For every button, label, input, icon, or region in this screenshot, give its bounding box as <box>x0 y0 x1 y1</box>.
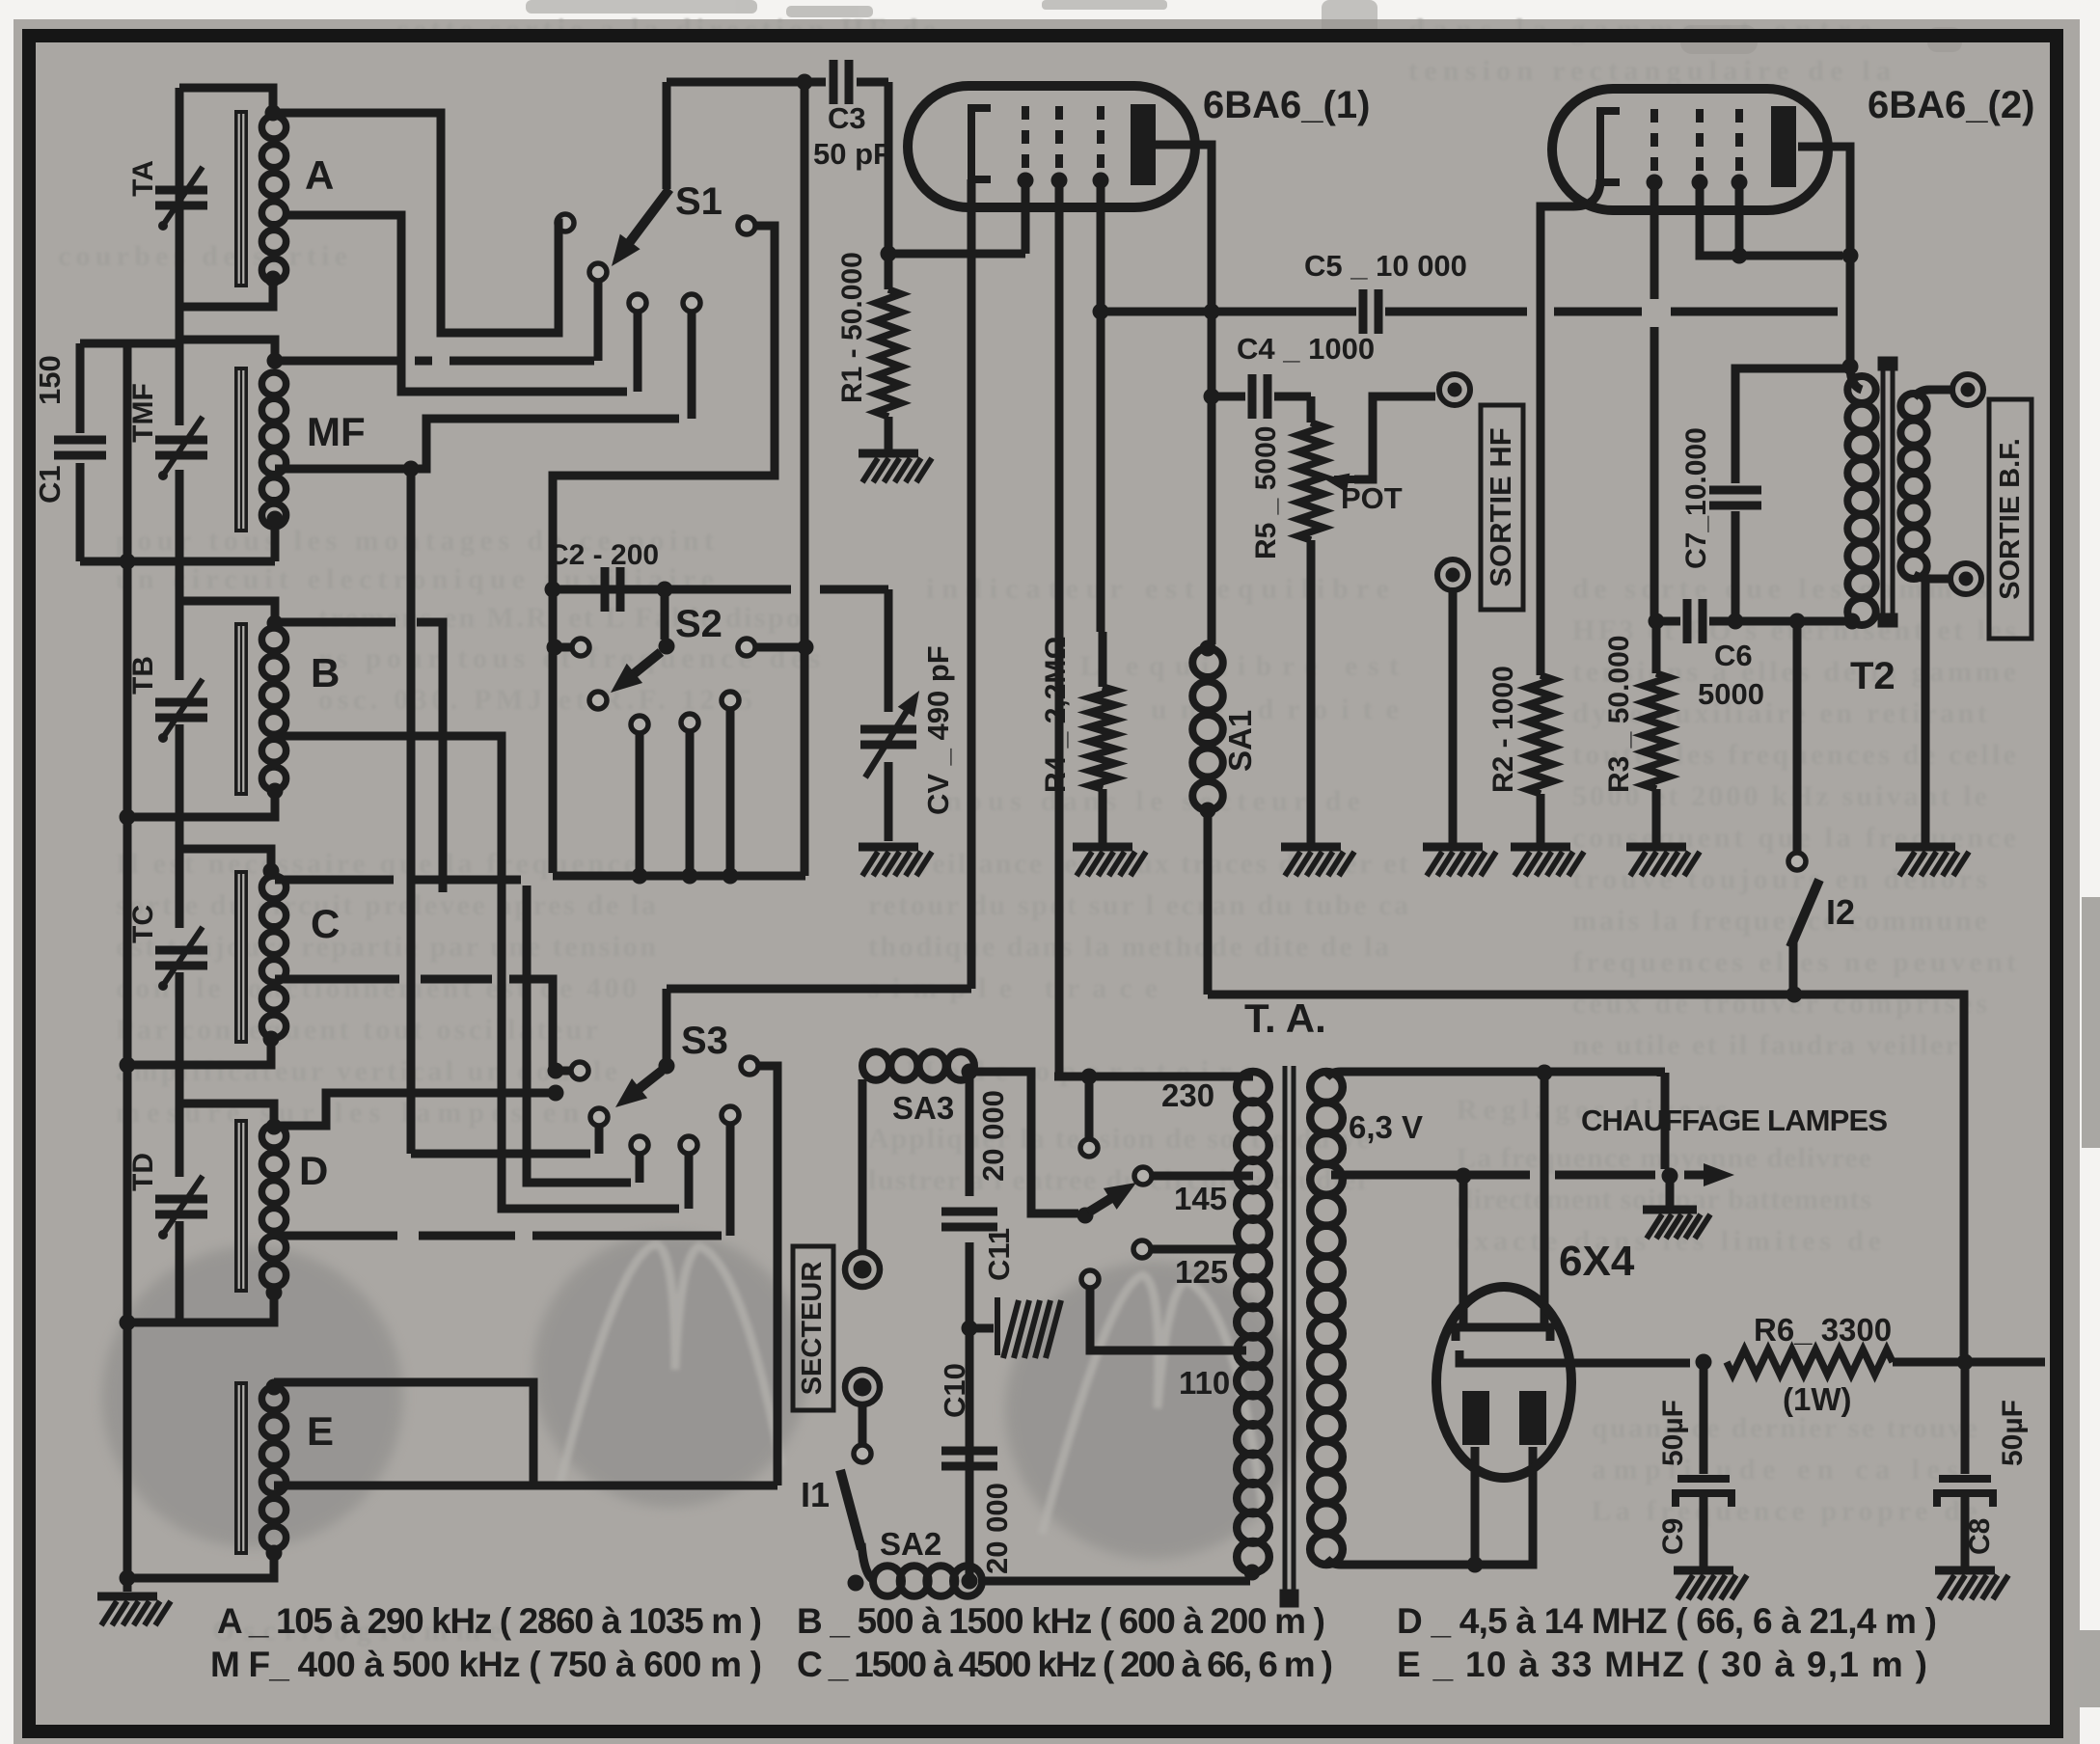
svg-text:C _ 1500 à 4500 kHz ( 200 à 6: C _ 1500 à 4500 kHz ( 200 à 66, 6 m ) <box>797 1645 1333 1684</box>
wire top C3 row <box>667 78 888 87</box>
node C8 B+ <box>1957 1354 1974 1371</box>
wire S2 feed bus <box>801 82 809 876</box>
wire S3 left stub <box>556 1067 571 1076</box>
svg-text:6,3 V: 6,3 V <box>1349 1109 1423 1145</box>
svg-text:C8: C8 <box>1964 1518 1996 1555</box>
wire T2 secondary to ground <box>1922 579 1930 843</box>
svg-text:B _ 500 à 1500 kHz ( 600: B _ 500 à 1500 kHz ( 600 à 200 m ) <box>797 1601 1325 1641</box>
tube1 anode plate <box>1131 104 1156 185</box>
node B top <box>267 615 284 632</box>
jack SORTIE HF top <box>1439 374 1470 405</box>
contact S1 right <box>738 217 755 234</box>
wire tube2 g1 to C6 node (hop at C5 row) <box>1650 182 1659 617</box>
winding coil C <box>261 876 286 1038</box>
svg-text:B: B <box>311 650 340 695</box>
wire trimmer column x=186 <box>176 88 184 1322</box>
wire MF tap to S1 <box>275 419 679 469</box>
svg-text:thodique dans la methode dite: thodique dans la methode dite de la <box>868 931 1389 963</box>
wire 110 tap <box>1090 1288 1246 1350</box>
wire S1 right contact to S2 node <box>553 226 775 589</box>
wire S2 right stub <box>755 643 805 652</box>
trimmer TMF <box>155 440 207 455</box>
ground C9 <box>1674 1570 1747 1599</box>
svg-text:ne utile et il faudra veiller: ne utile et il faudra veiller <box>1572 1029 1958 1061</box>
wire A bottom bracket <box>179 277 273 307</box>
contact S3 b <box>680 1136 697 1154</box>
node I2 bottom on bus <box>1786 987 1803 1003</box>
node S2 right on bus <box>798 640 814 656</box>
svg-text:T2: T2 <box>1850 655 1895 697</box>
transformer T2 secondary <box>1900 394 1926 579</box>
potentiometer wiper arrow POT <box>1334 476 1362 483</box>
wire S3 contact stub <box>595 1126 604 1154</box>
wire R1 bottom lead <box>885 417 893 451</box>
wire B bottom bracket <box>127 789 275 817</box>
wire S2 pivot lead <box>661 589 669 640</box>
switch S3 arm <box>634 1071 662 1093</box>
transformer TA primary winding <box>1237 1072 1269 1572</box>
winding coil E <box>261 1387 286 1549</box>
wire 6.3V top end to ground corner <box>1661 1073 1670 1169</box>
wire R5 bottom lead <box>1307 540 1316 845</box>
inductor SA3 <box>862 1051 974 1079</box>
contact S2 left <box>572 639 589 656</box>
node S2 stub foot <box>723 868 739 885</box>
wire 145 tap <box>1152 1172 1253 1181</box>
wire S2 stub <box>726 709 735 876</box>
6X4 filament bar <box>1456 1327 1550 1341</box>
wire S3 right contact to rail <box>758 1066 777 1485</box>
node anode T2 C7 <box>1842 359 1859 375</box>
ground CV <box>859 847 932 876</box>
svg-text:C9: C9 <box>1657 1518 1689 1555</box>
wire D bottom bracket <box>127 1291 274 1322</box>
node A bottom <box>265 271 282 287</box>
node bus top <box>797 74 813 91</box>
wire SA1 to B+ bus <box>1204 810 1213 995</box>
wire C top feeder to S3 <box>275 880 631 1183</box>
switch mains voltage arm <box>1088 1195 1117 1213</box>
wire A top bracket <box>179 88 273 113</box>
wire S1 pivot lead <box>594 281 603 361</box>
node SA3 right <box>962 1064 978 1080</box>
contact S1 left <box>557 214 574 232</box>
wire C1 branch <box>76 343 85 561</box>
node rail junction <box>120 1315 136 1331</box>
wire MF bottom lead <box>271 517 280 561</box>
wire C7 branch <box>1735 368 1850 621</box>
trimmer TC <box>155 950 207 966</box>
node grid1 R1 <box>881 246 897 262</box>
svg-text:I1: I1 <box>801 1475 830 1514</box>
wire S3 stub b <box>685 1154 694 1209</box>
svg-text:S3: S3 <box>681 1020 728 1062</box>
ground R5 <box>1281 847 1354 876</box>
jack SECTEUR bottom <box>845 1370 880 1404</box>
wire MF top to S1 pivot (with hops) <box>275 357 594 366</box>
winding coil D <box>261 1125 286 1287</box>
transformer T2 core <box>1878 357 1897 627</box>
svg-text:C1: C1 <box>33 465 67 504</box>
svg-text:150: 150 <box>33 355 67 405</box>
wire C bottom bracket <box>127 1037 271 1065</box>
wire 6.3V end corner <box>1657 1073 1666 1076</box>
wire C tap feeder to S3 left contact <box>275 979 571 1071</box>
node filament left feed <box>1456 1168 1472 1185</box>
node C11 C10 mid <box>962 1321 978 1337</box>
wire MF bottom bracket <box>80 558 275 566</box>
wire tube1 g2 long lead <box>1055 180 1064 1074</box>
svg-text:SA3: SA3 <box>892 1090 954 1126</box>
svg-text:R3 _ 50.000: R3 _ 50.000 <box>1603 636 1635 793</box>
contact S2 sel <box>589 692 607 709</box>
resistor R6 3300 <box>1727 1349 1893 1375</box>
scan artifacts top margin <box>526 0 1962 54</box>
node chauffage ground tap <box>1662 1168 1678 1185</box>
contact 125 <box>1133 1240 1151 1258</box>
wire S2 stub <box>636 733 644 876</box>
wire tube2 anode lead <box>1798 147 1850 365</box>
6X4 plate right <box>1519 1391 1546 1445</box>
jack SECTEUR top <box>845 1252 880 1287</box>
wire S1 contact stub b <box>688 312 696 419</box>
svg-text:L equilibre est: L equilibre est <box>1080 650 1399 682</box>
wire 230 row to primary top <box>1054 1073 1253 1081</box>
wire D tap feeder to S3 <box>280 1232 722 1240</box>
scan artifacts right margin <box>2074 897 2100 1707</box>
node SA1 bottom <box>1200 803 1216 819</box>
contact S3 a <box>631 1136 648 1154</box>
contact S2 open <box>631 716 648 733</box>
wire 6X4 left plate lead <box>1471 1447 1480 1565</box>
capacitor C11 20000 <box>941 1212 997 1227</box>
wire C9 bottom lead <box>1700 1496 1708 1567</box>
wire MF top bracket <box>179 340 275 361</box>
svg-text:C2 - 200: C2 - 200 <box>548 539 659 571</box>
svg-text:R1 - 50.000: R1 - 50.000 <box>836 252 868 403</box>
ground HF jack <box>1423 847 1496 876</box>
node g3 tie <box>1732 248 1748 264</box>
svg-text:C7_10.000: C7_10.000 <box>1680 427 1712 569</box>
node rail junction <box>120 1057 136 1074</box>
node D bottom <box>266 1285 283 1301</box>
wire S3 row <box>411 1150 590 1158</box>
wire 6X4 filament left lead <box>1459 1176 1468 1327</box>
wire anode into T2 primary <box>1850 367 1862 390</box>
node g3 C5 row <box>1093 304 1109 320</box>
svg-text:50µF: 50µF <box>1657 1400 1689 1466</box>
wire S1 arm feed <box>663 82 671 189</box>
wire tube2 cathode to R2 <box>1541 179 1600 675</box>
wire R6 to B+ corner and frame <box>1893 1358 2045 1367</box>
node D top feeder join <box>548 1085 564 1102</box>
node S2 pivot <box>659 639 675 655</box>
contact S1 pivot <box>589 263 607 281</box>
node selector pivot <box>1077 1208 1094 1224</box>
svg-text:R6_ 3300: R6_ 3300 <box>1754 1312 1892 1348</box>
svg-text:110: 110 <box>1179 1365 1230 1401</box>
svg-text:indicateur est equilibre: indicateur est equilibre <box>926 573 1389 605</box>
contact I1 <box>854 1445 871 1462</box>
core of coil E <box>234 1381 248 1555</box>
wire T2 secondary top to jack <box>1914 390 1952 397</box>
switch I2 blade <box>1790 880 1819 947</box>
node screen to anode <box>1842 248 1859 264</box>
wire S2 bottom rail <box>553 872 805 881</box>
wire I2 lower lead <box>1789 940 1798 995</box>
wire S3 stub d <box>726 1123 735 1236</box>
svg-text:C5 _ 10 000: C5 _ 10 000 <box>1304 249 1467 283</box>
switch S2 arm <box>629 652 661 678</box>
winding coil MF <box>261 372 286 527</box>
contact S2 open <box>681 714 698 731</box>
node I2 top <box>1789 613 1806 630</box>
ground hatch block (C10/C11 mid) <box>969 1324 994 1333</box>
wire A tap to S1 <box>285 215 627 392</box>
node TA primary bottom <box>1244 1565 1261 1581</box>
node rail junction <box>120 554 136 570</box>
tube 6BA6 (1) envelope <box>908 86 1195 207</box>
wire C5 row (hops at crossings) <box>1101 308 1838 316</box>
jack SORTIE BF top <box>1952 374 1983 405</box>
svg-text:C4 _ 1000: C4 _ 1000 <box>1237 332 1375 366</box>
svg-text:TMF: TMF <box>127 383 159 443</box>
tube2 cathode <box>1600 111 1620 182</box>
core of coil D <box>234 1119 248 1293</box>
wire 230 stub <box>1085 1076 1094 1139</box>
wire S1 contact stub a <box>634 312 642 392</box>
capacitor C1 150 <box>54 440 106 455</box>
tube1 cathode <box>971 108 991 179</box>
contact S2 right <box>738 639 755 656</box>
wire TA 6.3V tap (chauffage line A) <box>1331 1171 1705 1180</box>
node C bottom <box>263 1031 280 1048</box>
node tube2 g3 pin <box>1732 175 1748 191</box>
node C9 R6 <box>1696 1354 1712 1371</box>
contact S3 left <box>571 1062 588 1079</box>
wire g3 to R4 <box>1101 312 1103 687</box>
node tube2 g2 pin <box>1692 175 1708 191</box>
tube2 grids (dashed) <box>1654 109 1739 176</box>
node C tap corner <box>548 1063 564 1079</box>
node tube2 g1 pin <box>1647 175 1663 191</box>
svg-text:6X4: 6X4 <box>1559 1238 1635 1285</box>
bleed-through oscillogram circle 3 <box>1005 1262 1302 1559</box>
variable capacitor CV 490pF <box>860 729 916 745</box>
svg-text:I2: I2 <box>1826 892 1855 932</box>
6X4 cathode bar <box>1459 1350 1541 1363</box>
jack SORTIE BF bottom <box>1950 563 1981 594</box>
tube1 grids (dashed) <box>1025 106 1101 174</box>
contact 110 <box>1081 1270 1099 1288</box>
node E bottom <box>266 1545 283 1562</box>
node D top <box>266 1119 283 1135</box>
resistor R2 1000 <box>1528 675 1553 794</box>
node B bottom <box>267 783 284 800</box>
core of coil C <box>234 870 248 1044</box>
node tube1 g1 pin <box>1018 173 1034 189</box>
node C7 bottom <box>1728 613 1744 630</box>
svg-text:6BA6_(2): 6BA6_(2) <box>1868 84 2034 126</box>
wire MF tap long feeder <box>407 469 416 1154</box>
contact S2 open <box>722 692 739 709</box>
node C4 junction <box>1204 389 1220 405</box>
transformer TA secondary winding <box>1310 1072 1343 1565</box>
svg-text:SA2: SA2 <box>880 1526 941 1562</box>
svg-text:T. A.: T. A. <box>1244 995 1326 1041</box>
ground R2 <box>1511 847 1584 876</box>
wire tube1 anode lead <box>1156 145 1212 392</box>
wire I1 to SA2 <box>861 1543 876 1581</box>
wire ground rail left <box>123 343 132 1592</box>
ground R3 <box>1626 847 1700 876</box>
svg-text:C10: C10 <box>938 1363 971 1418</box>
node E top <box>266 1379 283 1396</box>
wire 6X4 filament right lead <box>1541 1073 1549 1327</box>
node S3 pivot <box>659 1058 675 1075</box>
bleed-through oscillogram circle 2 <box>533 1233 807 1507</box>
wire B tap feeder to S3 <box>275 736 679 1209</box>
svg-text:mais la frequence commune: mais la frequence commune <box>1572 905 1987 937</box>
svg-text:S2: S2 <box>675 603 723 645</box>
svg-text:La frequence propre de: La frequence propre de <box>1592 1495 1977 1527</box>
svg-text:E _ 10 à 33 MHZ ( 30: E _ 10 à 33 MHZ ( 30 à 9,1 m ) <box>1397 1645 1927 1684</box>
capacitor C3 50pF <box>833 60 849 104</box>
wire jack to I1 <box>859 1403 867 1445</box>
trimmer TA <box>155 190 207 205</box>
wire CV branch <box>885 589 893 841</box>
wire S3 stub a <box>636 1154 644 1183</box>
svg-text:230: 230 <box>1161 1077 1214 1113</box>
wire R3 leads <box>1652 621 1661 843</box>
svg-text:SA1: SA1 <box>1222 710 1258 772</box>
node rail junction <box>120 809 136 826</box>
node C6 R3 junction <box>1649 613 1665 630</box>
wire R4 bottom lead <box>1099 789 1107 843</box>
svg-text:20 000: 20 000 <box>976 1090 1010 1182</box>
contact S1 b <box>683 294 700 312</box>
wire A top to S1 contact <box>273 113 559 333</box>
transformer TA core <box>1280 1066 1298 1607</box>
svg-text:amplitude en ca les: amplitude en ca les <box>1592 1454 1958 1485</box>
svg-text:A: A <box>305 152 334 198</box>
wire tube2 g2-g3 to anode line <box>1700 182 1842 256</box>
bleed-through oscillogram circle 1 <box>102 1246 403 1547</box>
trimmer TB <box>155 702 207 718</box>
svg-text:POT: POT <box>1341 481 1403 515</box>
svg-text:6BA6_(1): 6BA6_(1) <box>1203 84 1370 126</box>
winding coil B <box>261 628 286 790</box>
wire R5 top lead <box>1307 396 1316 422</box>
wire SA3 to 145 selector pivot <box>969 1072 1078 1213</box>
capacitor C5 10000 <box>1363 289 1378 334</box>
svg-text:TC: TC <box>127 905 159 943</box>
node tube1 g2 pin <box>1051 173 1068 189</box>
svg-text:D: D <box>299 1148 328 1193</box>
wire S3 top bracket / cathode bus <box>667 985 971 994</box>
contact I2 <box>1788 853 1806 870</box>
wire pot wiper to HF jack <box>1354 396 1435 479</box>
wire T2 secondary bottom to jack <box>1914 575 1950 579</box>
wire C11 C10 branch <box>966 1072 974 1581</box>
node S2 box top left <box>545 582 561 598</box>
wire B top bracket <box>179 601 275 622</box>
transformer T2 primary <box>1847 376 1875 625</box>
contact S1 a <box>629 294 646 312</box>
ground R1 <box>859 453 932 482</box>
wire C4 row <box>1212 393 1311 401</box>
switch I1 blade <box>840 1470 861 1549</box>
wire 6X4 cathode out to R6 <box>1541 1359 1690 1368</box>
svg-text:145: 145 <box>1174 1181 1227 1216</box>
core of coil A <box>234 110 248 287</box>
tube2 anode plate <box>1771 106 1796 187</box>
wire anode to SA1 <box>1208 392 1216 644</box>
trimmer TD <box>155 1199 207 1214</box>
node T2 primary bottom <box>1844 613 1861 630</box>
svg-text:osc. 030. PMJ et R.F. 1245: osc. 030. PMJ et R.F. 1245 <box>318 684 752 716</box>
core of coil MF <box>234 367 248 532</box>
node C top <box>263 863 280 880</box>
wire R2 bottom lead <box>1537 794 1545 843</box>
svg-text:C11: C11 <box>982 1228 1016 1281</box>
node C2 right <box>657 582 673 598</box>
wire E bottom bracket <box>127 1555 274 1578</box>
capacitor C6 5000 <box>1687 599 1703 643</box>
contact S3 right <box>741 1057 758 1075</box>
svg-text:50 pF: 50 pF <box>813 137 891 171</box>
svg-text:D _ 4,5 à 14 MHZ ( 66, 6 à: D _ 4,5 à 14 MHZ ( 66, 6 à 21,4 m ) <box>1397 1601 1937 1641</box>
ground R4 <box>1073 847 1146 876</box>
node MF top <box>267 353 284 369</box>
svg-text:5000: 5000 <box>1698 677 1764 711</box>
wire C8 top lead <box>1961 1362 1970 1474</box>
svg-text:C6: C6 <box>1714 639 1753 672</box>
contact 230 <box>1080 1139 1098 1157</box>
contact 145 <box>1134 1167 1152 1185</box>
svg-text:20 000: 20 000 <box>980 1483 1014 1574</box>
node SA1 top <box>1200 640 1216 657</box>
svg-text:CV _ 490 pF: CV _ 490 pF <box>921 645 955 815</box>
contact S3 low-left <box>590 1108 608 1126</box>
svg-text:M F_ 400 à 500 kHz ( 750 à: M F_ 400 à 500 kHz ( 750 à 600 m ) <box>210 1645 762 1684</box>
wire tube2 g3 lead <box>1735 182 1744 256</box>
capacitor C7 10000 <box>1709 490 1761 505</box>
svg-text:amplificateur vertical un doub: amplificateur vertical un double <box>116 1055 617 1087</box>
jack SORTIE HF bottom <box>1437 559 1468 590</box>
label box SECTEUR <box>793 1246 833 1410</box>
wire I2 upper lead <box>1793 621 1802 853</box>
node C10 bottom <box>962 1573 978 1590</box>
svg-text:MF: MF <box>307 409 366 454</box>
svg-text:SORTIE HF: SORTIE HF <box>1484 427 1517 586</box>
svg-text:TB: TB <box>127 656 159 695</box>
core of coil B <box>234 622 248 796</box>
svg-text:R4 _ 2,2MΩ: R4 _ 2,2MΩ <box>1040 637 1072 793</box>
wire C top bracket <box>179 849 271 870</box>
wire tube1 g3 lead <box>1097 180 1105 312</box>
svg-text:R5 _ 5000: R5 _ 5000 <box>1250 426 1282 559</box>
label box SORTIE HF <box>1481 405 1523 610</box>
contact S3 d <box>722 1106 739 1124</box>
node A top <box>265 105 282 122</box>
resistor R4 2.2M <box>1090 687 1115 789</box>
svg-text:CHAUFFAGE LAMPES: CHAUFFAGE LAMPES <box>1581 1104 1888 1137</box>
node S2 stub foot <box>682 868 698 885</box>
wire C9 top lead <box>1700 1362 1708 1474</box>
svg-text:C3: C3 <box>828 101 866 135</box>
svg-text:A _ 105 à 290 kHz ( 2860 à: A _ 105 à 290 kHz ( 2860 à 1035 m ) <box>217 1601 762 1641</box>
